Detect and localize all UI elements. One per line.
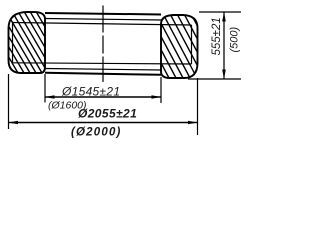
svg-text:555±21: 555±21 [211,17,223,55]
svg-text:Ø2055±21: Ø2055±21 [78,107,137,121]
svg-text:(Ø2000): (Ø2000) [71,127,122,139]
svg-text:(500): (500) [229,26,241,52]
svg-text:Ø1545±21: Ø1545±21 [61,85,120,99]
